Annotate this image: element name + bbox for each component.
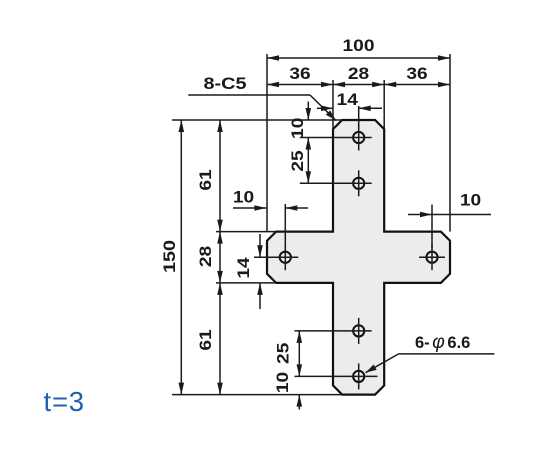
- svg-text:61: 61: [197, 329, 215, 350]
- svg-text:36: 36: [289, 65, 310, 83]
- svg-text:25: 25: [275, 343, 293, 364]
- svg-text:14: 14: [235, 256, 253, 278]
- svg-text:28: 28: [197, 246, 215, 267]
- hole 6 (bottom arm lower hole): [346, 363, 378, 389]
- hole 3 (left arm hole): [272, 244, 298, 270]
- svg-text:36: 36: [406, 65, 427, 83]
- label 8-C5 with leader: [188, 75, 335, 120]
- dimension 61-28-61 (left subdivisions): [197, 120, 223, 395]
- extension line plate bottom edge (y=394.6): [172, 394, 343, 396]
- plate outline (cross-shaped plate, 8 chamfered corners C5): [267, 120, 450, 395]
- svg-text:6-φ6.6: 6-φ6.6: [415, 331, 470, 353]
- svg-text:100: 100: [343, 37, 375, 55]
- extension line plate top edge (y=120): [172, 119, 343, 121]
- dimension 100 (top overall width): [267, 37, 450, 61]
- extension line left arm top edge (y=231.6): [216, 231, 277, 233]
- svg-text:10: 10: [233, 189, 254, 207]
- extension line plate right edge (x=450): [449, 54, 451, 232]
- label 6-phi6.6 with leader: [366, 331, 495, 373]
- svg-text:10: 10: [289, 118, 307, 139]
- extension line vertical arm left edge (x=333): [332, 80, 334, 130]
- extension line plate left edge (x=267): [266, 54, 268, 232]
- hole 4 (right arm hole): [419, 244, 445, 270]
- svg-text:25: 25: [289, 150, 307, 171]
- dimension 10 (vertical, top edge to hole 1): [289, 102, 311, 139]
- extension line vertical arm right edge (x=384.2): [383, 80, 385, 130]
- dimension 14 (left arm, hole 3 to bottom edge): [235, 234, 274, 309]
- svg-text:10: 10: [274, 372, 292, 393]
- svg-text:61: 61: [197, 169, 215, 190]
- hole 2 (top arm lower hole): [346, 170, 372, 196]
- svg-text:10: 10: [460, 192, 481, 210]
- dimension 14 (top arm, edge to hole centerline): [317, 91, 382, 128]
- dimension 10 (left arm, edge to hole 3): [233, 189, 308, 249]
- extension line hole 1 centerline: [300, 137, 346, 139]
- svg-text:28: 28: [348, 65, 369, 83]
- dimension 10 (right arm, hole 4 to edge): [408, 192, 491, 249]
- extension line hole 2 centerline: [300, 182, 346, 184]
- dimension 10 (bottom arm, hole 6 to bottom edge): [274, 372, 302, 410]
- svg-text:t=3: t=3: [44, 386, 85, 417]
- svg-text:8-C5: 8-C5: [204, 75, 247, 93]
- hole 1 (top arm upper hole): [346, 125, 372, 151]
- dimension 150 (left overall height): [161, 120, 184, 395]
- hole 5 (bottom arm upper hole): [346, 318, 372, 344]
- svg-text:14: 14: [337, 91, 359, 109]
- dimension 25 (vertical, hole 1 to hole 2): [289, 138, 311, 184]
- dimension 36-28-36 (top subdivisions): [267, 65, 450, 87]
- dimension 25 (bottom arm, hole 5 to hole 6): [275, 331, 347, 377]
- svg-text:150: 150: [161, 240, 179, 273]
- extension line left arm bottom edge (y=282.9): [216, 282, 277, 284]
